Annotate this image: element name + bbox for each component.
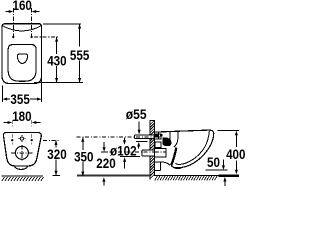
svg-text:400: 400 — [226, 146, 246, 162]
svg-text:430: 430 — [47, 52, 67, 68]
svg-text:180: 180 — [12, 108, 32, 124]
svg-text:160: 160 — [13, 0, 33, 13]
svg-text:350: 350 — [74, 148, 94, 164]
svg-text:555: 555 — [70, 47, 90, 63]
svg-text:320: 320 — [47, 146, 67, 162]
svg-text:355: 355 — [10, 91, 30, 107]
svg-text:ø55: ø55 — [126, 106, 147, 122]
svg-text:50: 50 — [207, 154, 220, 170]
